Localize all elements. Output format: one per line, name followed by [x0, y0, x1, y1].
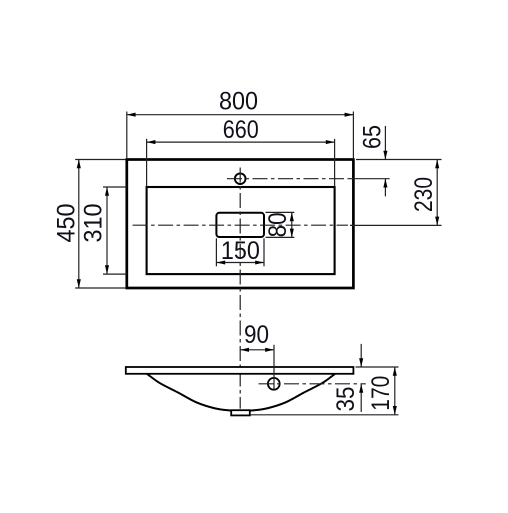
- faucet hole (side view): [268, 378, 280, 390]
- vertical center line (dash-dot axis): [239, 168, 241, 409]
- dimension 310: [80, 187, 127, 274]
- svg-text:660: 660: [223, 116, 259, 144]
- basin bowl curve (side view): [147, 374, 335, 411]
- countertop plate (side view): [126, 367, 354, 374]
- dimension 230: [410, 160, 439, 226]
- dimension 170: [367, 367, 397, 415]
- extension line: top edge to right: [356, 159, 442, 161]
- basin inner rectangle (top view): [147, 187, 335, 274]
- svg-text:35: 35: [332, 387, 360, 412]
- svg-text:90: 90: [244, 321, 269, 349]
- drain stub (side view): [231, 410, 250, 415]
- extension line: faucet line to right: [351, 178, 390, 180]
- svg-text:450: 450: [53, 204, 81, 243]
- svg-text:170: 170: [367, 376, 395, 411]
- svg-text:800: 800: [219, 88, 258, 116]
- overflow box 150x80: [216, 213, 264, 237]
- dimension 800: [127, 88, 354, 159]
- side-view hole center line (dash-dot): [259, 383, 366, 385]
- dimension 80: [264, 212, 294, 237]
- dimension 450: [53, 160, 126, 289]
- faucet hole center line (dash-dot): [227, 178, 351, 180]
- dimension 150: [216, 237, 264, 266]
- extension line: bowl bottom to right: [251, 414, 399, 416]
- extension line: box center line to right: [350, 224, 442, 226]
- dimension 90: [240, 321, 274, 390]
- dimension 35: [332, 344, 363, 412]
- horizontal center line through overflow box: [133, 224, 348, 226]
- svg-text:65: 65: [359, 125, 387, 149]
- dimension 660: [147, 116, 335, 187]
- svg-text:310: 310: [80, 204, 108, 243]
- washbasin outer rim (top view): [127, 160, 354, 289]
- faucet hole (top view): [235, 173, 246, 184]
- extension line: plate top to right: [356, 366, 399, 368]
- svg-text:80: 80: [264, 212, 292, 237]
- dimension 65: [359, 125, 388, 196]
- svg-text:230: 230: [410, 177, 438, 212]
- svg-text:150: 150: [221, 237, 260, 265]
